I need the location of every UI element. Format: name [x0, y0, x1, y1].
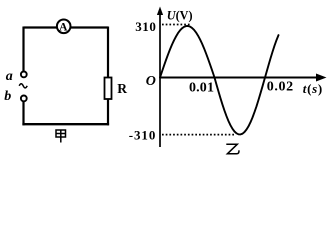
- label jia (circuit 1) glyph: [56, 130, 66, 143]
- wire right vertical lower: [107, 99, 109, 125]
- wire top (circuit): [24, 26, 109, 28]
- svg-text:R: R: [117, 81, 127, 96]
- ammeter U meter circle: [57, 20, 71, 34]
- svg-text:U(V): U(V): [167, 9, 193, 23]
- svg-text:0.01: 0.01: [189, 81, 214, 96]
- axis U vertical: [159, 9, 161, 147]
- svg-text:-310: -310: [129, 127, 156, 142]
- svg-text:A: A: [59, 21, 68, 33]
- svg-text:b: b: [4, 89, 11, 104]
- sine curve U(t): [160, 26, 279, 134]
- axis U arrowhead: [157, 7, 163, 16]
- svg-text:t(s): t(s): [303, 81, 323, 96]
- label yi (graph 2) glyph: [226, 144, 239, 154]
- svg-text:310: 310: [135, 19, 156, 34]
- AC source tilde: [19, 84, 27, 88]
- axis t horizontal: [160, 77, 318, 79]
- axis t arrowhead: [316, 74, 327, 82]
- terminal a circle: [21, 72, 27, 78]
- wire right vertical upper: [107, 27, 109, 79]
- terminal b circle: [21, 96, 27, 102]
- svg-text:a: a: [6, 69, 13, 84]
- dotted level +310: [162, 24, 190, 26]
- wire left vertical upper: [22, 27, 24, 72]
- wire bottom (circuit): [22, 123, 109, 125]
- wire left vertical lower: [22, 102, 24, 126]
- resistor R body: [105, 78, 112, 100]
- svg-text:0.02: 0.02: [267, 80, 294, 95]
- svg-text:O: O: [146, 74, 156, 89]
- dotted level -310: [162, 134, 236, 136]
